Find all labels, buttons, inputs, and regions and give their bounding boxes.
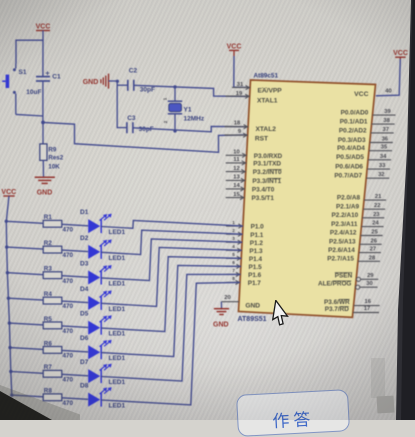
pin 23 stub <box>362 212 384 218</box>
wire row 2 rail to R2 <box>7 247 44 249</box>
pin 28 stub <box>358 255 380 261</box>
pin 6 stub <box>226 260 241 268</box>
ground (crystal caps) <box>83 74 118 89</box>
pin 21 stub <box>364 194 386 200</box>
LED D6 <box>80 335 126 362</box>
power VCC (pin 40) <box>376 50 408 96</box>
LED D4 <box>80 286 126 313</box>
answer button 作答 <box>236 389 350 437</box>
wire row 3 rail to R3 <box>7 273 43 275</box>
pin 16 stub <box>354 299 380 305</box>
node cap bus top <box>116 80 119 83</box>
pin 18 stub <box>225 120 249 129</box>
wire row 7 rail to R7 <box>11 372 43 374</box>
wire R2 to D2 <box>62 250 88 252</box>
wire D7 to P1.6 <box>101 274 240 381</box>
resistor R7 470 <box>43 364 73 383</box>
crystal Y1 12MHz <box>163 87 205 131</box>
wire S1 bottom <box>16 114 43 116</box>
pin 35 stub <box>369 145 392 151</box>
pin 32 stub <box>366 172 389 178</box>
node rail junction row 6 <box>8 346 11 349</box>
LED D7 <box>80 359 126 386</box>
wire D3 to P1.2 <box>101 239 242 281</box>
resistor R6 470 <box>43 340 73 359</box>
resistor R8 470 <box>43 388 73 407</box>
wire R6 to D6 <box>62 350 88 352</box>
pin 24 stub <box>362 221 384 227</box>
pin 17 stub <box>353 306 379 312</box>
ground below R9 <box>35 160 55 196</box>
wire D2 to P1.1 <box>101 230 242 254</box>
pin 29 stub PSEN <box>356 273 378 281</box>
node rail junction row 5 <box>8 321 11 324</box>
pin 10 stub <box>226 150 247 158</box>
scrollbar thumb <box>371 358 385 398</box>
switch S1 <box>2 64 27 115</box>
pin 1 stub <box>226 220 243 228</box>
node crystal bottom <box>173 129 176 132</box>
pin 8 stub <box>226 276 240 284</box>
node rail junction row 8 <box>10 393 13 396</box>
pin 38 stub <box>372 118 395 124</box>
resistor R5 470 <box>43 316 73 335</box>
pin 27 stub <box>359 247 381 253</box>
pin 30 stub ALE <box>356 281 378 289</box>
wire D8 to P1.7 <box>101 282 240 405</box>
pin 36 stub <box>370 137 393 143</box>
power VCC (EA/VPP) <box>227 44 250 88</box>
power VCC (LED rail) <box>1 189 16 196</box>
dark corner bottom-left <box>0 375 80 420</box>
wire S1/C1 top loop <box>16 40 43 76</box>
pin 4 stub <box>226 244 242 252</box>
resistor R2 470 <box>43 240 73 259</box>
dark band right edge <box>395 0 415 420</box>
pin 2 stub <box>226 228 243 236</box>
resistor R3 470 <box>43 266 73 285</box>
wire D6 to P1.5 <box>101 265 241 356</box>
capacitor C1 10uF <box>26 69 61 123</box>
mouse cursor <box>271 300 295 330</box>
wire R7 to D7 <box>62 374 88 376</box>
wire R8 to D8 <box>62 398 88 400</box>
node rail junction row 1 <box>5 220 8 223</box>
wire cap bus <box>116 81 118 128</box>
pin 19 stub <box>226 91 250 99</box>
pin 26 stub <box>360 238 382 244</box>
wire C3 to XTAL2 pin 18 <box>133 126 248 131</box>
wire D5 to P1.4 <box>101 257 241 332</box>
LED D5 <box>80 311 126 338</box>
pin 22 stub <box>363 203 385 209</box>
pin 20 stub <box>221 295 239 302</box>
LED D1 <box>80 209 126 236</box>
LED D3 <box>80 261 126 288</box>
node RST junction <box>41 121 45 125</box>
node rail junction row 7 <box>9 370 12 373</box>
wire row 1 rail to R1 <box>6 221 43 223</box>
wire row 5 rail to R5 <box>9 323 43 325</box>
capacitor C3 30pF <box>117 115 154 133</box>
wire D1 to P1.0 <box>101 220 243 228</box>
pin 12 stub <box>226 166 246 174</box>
pin 13 stub <box>226 175 246 183</box>
resistor R9 10K <box>40 122 64 170</box>
pin 11 stub <box>226 157 247 165</box>
pin 14 stub <box>226 183 245 191</box>
pin 33 stub <box>367 163 390 169</box>
wire row 4 rail to R4 <box>8 298 43 300</box>
wire R5 to D5 <box>62 326 88 328</box>
wire R4 to D4 <box>62 301 88 303</box>
LED D2 <box>80 235 126 262</box>
wire R1 to D1 <box>62 224 88 226</box>
resistor R4 470 <box>43 291 73 310</box>
node crystal top <box>173 85 176 88</box>
pin 7 stub <box>226 268 240 276</box>
pin 34 stub <box>368 154 391 160</box>
wire VCC rail <box>6 196 12 395</box>
node rail junction row 3 <box>6 271 9 274</box>
wire row 6 rail to R6 <box>10 348 43 350</box>
resistor R1 470 <box>43 214 73 233</box>
node rail junction row 4 <box>7 297 10 300</box>
pin 9 stub <box>225 129 248 137</box>
pin 40 stub <box>385 89 391 95</box>
capacitor C2 30pF <box>117 68 155 94</box>
wire row 8 rail to R8 <box>12 395 43 397</box>
power VCC (reset network) <box>36 24 51 41</box>
pin 15 stub <box>226 192 245 200</box>
wire D4 to P1.3 <box>101 247 242 306</box>
pin 37 stub <box>371 127 394 133</box>
ground pin 20 <box>213 302 229 329</box>
wire RST to pin 9 <box>43 122 248 152</box>
pin 25 stub <box>361 230 383 236</box>
pin 3 stub <box>226 236 242 244</box>
node rail junction row 2 <box>5 245 8 248</box>
pin 5 stub <box>226 252 241 260</box>
IC U1 AT89S51 body <box>239 80 376 317</box>
wire R3 to D3 <box>62 276 88 278</box>
wire C2 to XTAL1 pin 19 <box>134 85 249 96</box>
pin 31 stub <box>232 82 250 90</box>
pin 39 stub <box>373 109 396 115</box>
LED D8 <box>80 383 126 410</box>
